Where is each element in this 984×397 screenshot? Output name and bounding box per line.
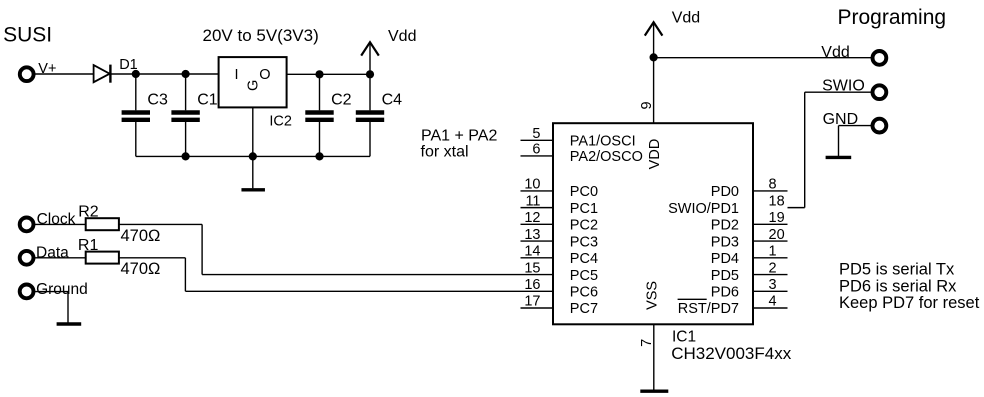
svg-text:I: I <box>234 67 238 83</box>
node rail C2 <box>315 152 323 160</box>
svg-text:15: 15 <box>524 260 540 276</box>
svg-text:11: 11 <box>525 193 540 209</box>
ground regulator <box>241 188 265 191</box>
svg-text:9: 9 <box>639 101 655 109</box>
wire GND terminal <box>839 125 872 127</box>
wire pin 8 stub <box>753 190 788 192</box>
wire pin 1 stub <box>753 257 788 259</box>
ground programming <box>826 156 852 159</box>
svg-text:Vdd: Vdd <box>672 9 700 26</box>
wire pin 20 stub <box>753 240 788 242</box>
node diode/C3 junction <box>132 70 140 78</box>
svg-text:PC3: PC3 <box>570 234 598 250</box>
svg-text:RST/PD7: RST/PD7 <box>678 301 739 317</box>
node C2 junction <box>315 70 323 78</box>
svg-text:PC5: PC5 <box>570 268 598 284</box>
terminal Ground <box>20 285 34 299</box>
wire pin 5 stub <box>521 139 554 141</box>
wire pin 11 stub <box>521 207 554 209</box>
ground input <box>57 322 82 325</box>
node C4/Vdd junction <box>366 70 374 78</box>
wire pin 17 stub <box>521 307 554 309</box>
svg-text:Data: Data <box>36 244 69 261</box>
svg-text:20V to 5V(3V3): 20V to 5V(3V3) <box>203 26 319 45</box>
wire Vdd to programming header <box>654 57 872 59</box>
terminal V+ <box>20 67 34 81</box>
svg-text:13: 13 <box>524 227 540 243</box>
svg-text:R1: R1 <box>78 237 99 254</box>
wire data drop <box>184 258 186 291</box>
svg-text:6: 6 <box>532 142 540 158</box>
svg-text:17: 17 <box>524 294 540 310</box>
diode D1 <box>94 65 111 83</box>
wire pin 12 stub <box>521 223 554 225</box>
wire SWIO riser <box>804 92 806 207</box>
wire ground rail <box>136 155 370 157</box>
svg-text:VDD: VDD <box>647 139 663 170</box>
wire Vdd riser left <box>369 42 371 74</box>
svg-text:Programing: Programing <box>838 6 947 29</box>
wire pin 3 stub <box>753 290 788 292</box>
svg-text:PD5: PD5 <box>711 268 739 284</box>
svg-text:IC2: IC2 <box>269 114 292 130</box>
svg-text:PD4: PD4 <box>711 251 739 267</box>
wire R2 east <box>119 223 202 225</box>
wire R1 east <box>119 257 185 259</box>
svg-text:16: 16 <box>524 277 540 293</box>
terminal SWIO <box>873 85 887 99</box>
capacitor C4 <box>356 74 402 156</box>
terminal Data <box>20 251 34 265</box>
svg-text:18: 18 <box>769 193 785 209</box>
svg-text:PC7: PC7 <box>570 301 598 317</box>
svg-text:V+: V+ <box>38 61 56 77</box>
wire pin 6 stub <box>521 155 554 157</box>
wire pin 18 extension <box>788 207 805 209</box>
wire V+ to diode anode <box>35 73 93 75</box>
wire pin 2 stub <box>753 274 788 276</box>
power arrow Vdd right <box>645 22 663 35</box>
wire diode cathode to regulator input <box>110 73 218 75</box>
svg-text:7: 7 <box>639 339 655 347</box>
terminal Vdd program <box>873 51 887 65</box>
svg-text:PD0: PD0 <box>711 184 739 200</box>
svg-text:5: 5 <box>532 126 540 142</box>
svg-text:PD6 is serial Rx: PD6 is serial Rx <box>839 277 957 295</box>
svg-text:C4: C4 <box>382 92 403 109</box>
wire pin 10 stub <box>521 190 554 192</box>
capacitor C1 <box>171 74 217 156</box>
svg-text:C1: C1 <box>197 92 218 109</box>
resistor R1 <box>86 252 119 264</box>
svg-text:PD2: PD2 <box>711 218 739 234</box>
wire Data to R1 <box>34 257 86 259</box>
svg-text:PD3: PD3 <box>711 234 739 250</box>
svg-text:PD6: PD6 <box>711 284 739 300</box>
capacitor C2 <box>305 74 351 156</box>
node Vdd junction <box>650 53 658 61</box>
wire pin 13 stub <box>521 240 554 242</box>
svg-text:PA1/OSCI: PA1/OSCI <box>570 134 636 150</box>
svg-text:PC2: PC2 <box>570 218 598 234</box>
svg-text:1: 1 <box>769 244 777 260</box>
mcu IC1 body <box>553 123 753 324</box>
svg-text:19: 19 <box>769 210 785 226</box>
svg-text:PC0: PC0 <box>570 184 598 200</box>
pin label RST/PD7 with overline <box>678 299 739 317</box>
note serial pins <box>839 261 980 312</box>
wire clock to PC5 <box>202 274 553 276</box>
svg-text:R2: R2 <box>78 203 99 220</box>
svg-text:PC6: PC6 <box>570 284 598 300</box>
node rail C1 <box>182 152 190 160</box>
svg-text:SUSI: SUSI <box>3 24 52 47</box>
wire regulator ground stem <box>252 107 254 188</box>
capacitor C3 <box>122 74 168 156</box>
svg-text:SWIO/PD1: SWIO/PD1 <box>668 201 739 217</box>
wire pin 7 VSS stem <box>653 324 655 391</box>
wire pin 9 VDD stem <box>653 57 655 123</box>
svg-text:CH32V003F4xx: CH32V003F4xx <box>671 344 792 363</box>
power arrow Vdd left <box>361 42 379 55</box>
wire pin 19 stub <box>753 223 788 225</box>
svg-text:4: 4 <box>769 294 777 310</box>
svg-text:Vdd: Vdd <box>388 28 416 45</box>
wire Clock to R2 <box>34 223 86 225</box>
wire ground drop <box>67 292 69 323</box>
wire data to PC6 <box>185 290 553 292</box>
wire regulator output <box>287 73 370 75</box>
svg-text:Keep PD7 for reset: Keep PD7 for reset <box>839 294 980 312</box>
svg-text:Ground: Ground <box>36 281 88 298</box>
wire Vdd arrow stem <box>653 22 655 57</box>
resistor R2 <box>86 218 119 230</box>
svg-text:Vdd: Vdd <box>821 44 849 61</box>
svg-text:for xtal: for xtal <box>421 143 469 160</box>
svg-text:G: G <box>246 80 262 91</box>
svg-text:PA2/OSCO: PA2/OSCO <box>570 149 643 165</box>
note PA1 + PA2 for xtal <box>421 127 498 160</box>
svg-text:2: 2 <box>769 260 777 276</box>
svg-text:10: 10 <box>524 177 540 193</box>
svg-text:8: 8 <box>769 177 777 193</box>
svg-text:VSS: VSS <box>644 281 660 310</box>
svg-text:C2: C2 <box>331 92 352 109</box>
wire ground terminal <box>34 291 68 293</box>
wire SWIO to terminal <box>805 91 872 93</box>
svg-text:470Ω: 470Ω <box>121 227 161 245</box>
svg-text:PC4: PC4 <box>570 251 598 267</box>
svg-text:14: 14 <box>524 244 540 260</box>
node C1 junction <box>182 70 190 78</box>
node rail regulator <box>249 152 257 160</box>
terminal Clock <box>20 218 34 232</box>
svg-text:PC1: PC1 <box>570 201 598 217</box>
svg-text:Clock: Clock <box>37 211 76 228</box>
svg-text:12: 12 <box>524 210 540 226</box>
svg-text:470Ω: 470Ω <box>121 260 161 278</box>
svg-text:PD5 is serial Tx: PD5 is serial Tx <box>839 261 955 279</box>
wire clock drop <box>201 224 203 274</box>
wire pin 4 stub <box>753 307 788 309</box>
svg-text:20: 20 <box>769 227 785 243</box>
regulator IC2 <box>219 57 287 107</box>
svg-text:3: 3 <box>769 277 777 293</box>
terminal GND program <box>873 119 887 133</box>
svg-text:C3: C3 <box>147 92 168 109</box>
wire GND drop <box>838 126 840 156</box>
wire pin 14 stub <box>521 257 554 259</box>
ground VSS <box>640 390 668 393</box>
svg-text:PA1 + PA2: PA1 + PA2 <box>421 127 497 144</box>
